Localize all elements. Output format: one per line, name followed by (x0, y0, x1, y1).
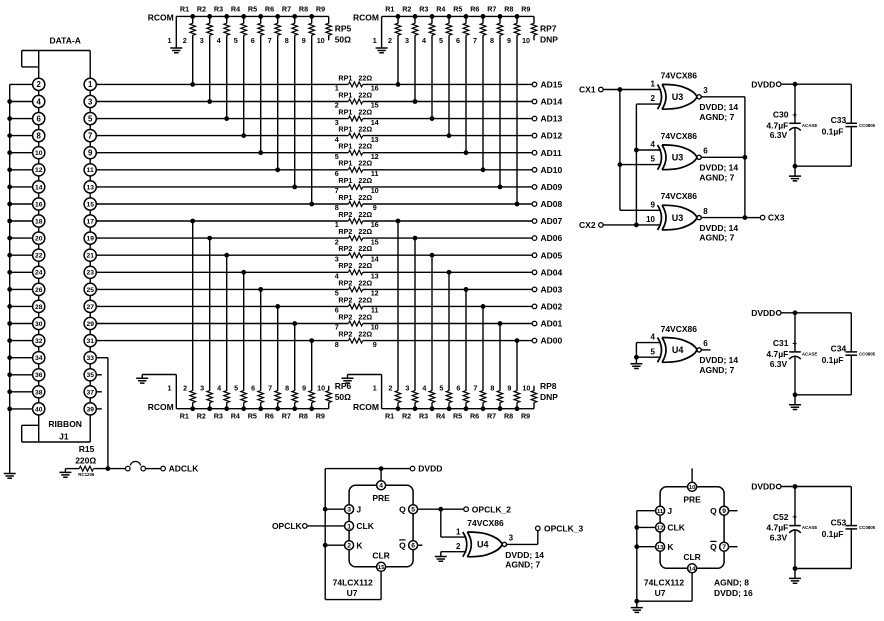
wire J1 pin 4 to ground bus (10, 101, 33, 103)
resistor RP7.R5 (453, 4, 469, 45)
wire RP6.R5 up to data line (260, 289, 262, 390)
node CX2 input terminal (599, 223, 604, 228)
junction RP8.R7 on data line (498, 321, 503, 326)
svg-text:3: 3 (703, 86, 708, 95)
resistor RP1 element 4 (AD12) 22 ohm (335, 125, 379, 144)
svg-text:RP2 22Ω: RP2 22Ω (338, 227, 372, 236)
wire RP7.R3 down to data line (431, 35, 433, 118)
junction RP6 bus at R4 (241, 406, 246, 411)
net AD15 wire left segment (96, 83, 348, 85)
wire RP7.R6 down to data line (482, 35, 484, 170)
svg-text:RP1 22Ω: RP1 22Ω (338, 176, 372, 185)
junction RP8 bus at R3 (430, 406, 435, 411)
svg-text:9: 9 (507, 36, 511, 45)
RP8 RCOM pin 1 wire jog to ground (381, 375, 383, 409)
svg-text:8: 8 (703, 207, 708, 216)
resistor RP1 element 1 (AD15) 22 ohm (335, 73, 379, 92)
wire CX2 riser up to U3a pin 2 (635, 104, 637, 225)
wire J1 pin 40 to ground bus (10, 408, 33, 410)
svg-text:R1: R1 (385, 412, 394, 421)
junction RP6.R2 on data line (207, 236, 212, 241)
wire R15 to jumper (94, 468, 126, 470)
junction RP5.R4 on data line (241, 133, 246, 138)
junction RP7.R5 on data line (464, 150, 469, 155)
svg-text:RP2 22Ω: RP2 22Ω (338, 278, 372, 287)
svg-text:Q: Q (710, 506, 717, 516)
resistor RP5.R3 (214, 4, 230, 45)
svg-text:74VCX86: 74VCX86 (661, 131, 698, 141)
wire stub pin 10 of RP8 (533, 386, 535, 391)
pin 9 Q (710, 506, 728, 516)
svg-text:AGND; 7: AGND; 7 (699, 172, 734, 182)
junction on ground bus at pin 24 row (7, 270, 12, 275)
svg-text:50Ω: 50Ω (335, 34, 351, 44)
wire J1 pin 33 to ADCLK drop (96, 357, 108, 359)
svg-text:AD07: AD07 (541, 216, 563, 226)
resistor RP8.R5 (453, 384, 469, 421)
resistor R15 220 ohm (75, 444, 96, 477)
resistor network RP8 common bus (382, 408, 534, 410)
junction RP7 bus at R3 (430, 14, 435, 19)
wire RP8.R1 up to data line (397, 221, 399, 391)
node AD01 output terminal (532, 321, 537, 326)
junction RP7.R3 on data line (430, 116, 435, 121)
wire U3 output 8 to CX3 bus (701, 217, 745, 219)
node AD10 output terminal (532, 168, 537, 173)
wire J1 pin 34 to ground bus (10, 357, 33, 359)
svg-text:74LCX112: 74LCX112 (333, 578, 373, 588)
connector J1 pin circles right column (odd pins) (84, 78, 96, 415)
svg-text:74VCX86: 74VCX86 (661, 191, 698, 201)
ground symbol capacitor group (794, 395, 796, 405)
node AD04 output terminal (532, 270, 537, 275)
junction on ground bus at pin 32 row (7, 338, 12, 343)
wire U4 pin 5 tie (636, 356, 661, 358)
junction CX3 bus at U3c output (743, 215, 748, 220)
junction OPCLK_2 branch (438, 507, 443, 512)
svg-text:12: 12 (657, 526, 664, 532)
svg-text:7: 7 (268, 384, 272, 393)
junction RP8 bus at R1 (396, 406, 401, 411)
resistor RP1 element 5 (AD11) 22 ohm (335, 142, 379, 161)
resistor RP6.R4 (231, 384, 247, 421)
wire J1 pin 15 to data line (96, 203, 98, 205)
resistor RP7.R1 (385, 4, 401, 45)
junction RP8 bus at R5 (464, 406, 469, 411)
svg-text:PRE: PRE (372, 493, 390, 503)
svg-text:21: 21 (86, 253, 94, 260)
ground symbol at bottom of even-pin bus (4, 474, 16, 479)
svg-text:9: 9 (302, 36, 306, 45)
svg-text:CLK: CLK (356, 521, 374, 531)
svg-text:7: 7 (268, 36, 272, 45)
resistor RP2 element 8 (AD00) 22 ohm (335, 330, 377, 349)
resistor RP8.R1 (385, 384, 401, 421)
wire RP7.R5 down to data line (465, 35, 467, 153)
net AD03 wire left segment (96, 288, 348, 290)
svg-text:23: 23 (86, 270, 94, 277)
junction CX3 bus at U3b output (743, 155, 748, 160)
svg-text:9: 9 (722, 508, 726, 515)
wire RP8.R5 up to data line (465, 289, 467, 390)
svg-text:15: 15 (86, 201, 94, 208)
svg-text:5: 5 (234, 384, 238, 393)
svg-text:3: 3 (405, 384, 409, 393)
pin 14 CLR (683, 552, 700, 573)
pin 13 K (656, 542, 675, 552)
svg-text:7: 7 (722, 544, 726, 551)
junction RP8.R6 on data line (481, 304, 486, 309)
wire to CX3 terminal (745, 217, 761, 219)
wire J1 pin 6 to ground bus (10, 118, 33, 120)
svg-text:19: 19 (86, 236, 94, 243)
svg-text:6.3V: 6.3V (770, 359, 788, 369)
svg-text:AD05: AD05 (541, 250, 563, 260)
junction RP7.R7 on data line (498, 185, 503, 190)
ground bus on even pins of J1 (9, 84, 11, 473)
junction on ground bus at pin 34 row (7, 355, 12, 360)
svg-text:R6: R6 (265, 4, 274, 13)
wire RP8.R8 up to data line (516, 341, 518, 391)
ground symbol capacitor group (794, 569, 796, 579)
wire J1 pin 30 to ground bus (10, 323, 33, 325)
junction on ground bus at pin 16 row (7, 202, 12, 207)
resistor RP7.R9 (521, 4, 537, 45)
junction RP5 bus at R1 (190, 14, 195, 19)
resistor RP6.R2 (197, 384, 213, 421)
svg-text:74LCX112: 74LCX112 (644, 578, 684, 588)
svg-text:10: 10 (317, 384, 325, 393)
svg-text:CLR: CLR (372, 550, 389, 560)
svg-text:PRE: PRE (683, 494, 701, 504)
svg-text:RP8: RP8 (540, 381, 557, 391)
resistor RP5.R4 (231, 4, 247, 45)
resistor RP8.R3 (419, 384, 435, 421)
net AD14 wire right segment (363, 101, 533, 103)
net AD13 wire left segment (96, 118, 348, 120)
net AD00 wire right segment (363, 340, 533, 342)
junction RP6.R3 on data line (224, 253, 229, 258)
wire RP5.R6 down to data line (277, 35, 279, 170)
net AD01 wire right segment (363, 323, 533, 325)
svg-text:8: 8 (37, 131, 42, 140)
junction RP8 bus at R4 (447, 406, 452, 411)
svg-text:1: 1 (651, 80, 656, 89)
node AD09 output terminal (532, 185, 537, 190)
net AD03 wire right segment (363, 288, 533, 290)
wire RP5.R3 down to data line (226, 35, 228, 118)
svg-text:RP7: RP7 (540, 23, 557, 33)
svg-text:ACASE: ACASE (802, 352, 817, 357)
svg-text:R5: R5 (453, 4, 462, 13)
wire RP5.R5 down to data line (260, 35, 262, 153)
net AD11 wire right segment (363, 152, 533, 154)
wire J1 pin 1 to data line (96, 83, 98, 85)
svg-text:K: K (667, 542, 674, 552)
wire U4 output 3 to OPCLK_3 (506, 543, 538, 545)
svg-text:RP1 22Ω: RP1 22Ω (338, 142, 372, 151)
wire RP6.R8 up to data line (311, 341, 313, 391)
connector J1 bottom bracket outline (22, 441, 91, 443)
svg-text:RC1206: RC1206 (78, 472, 95, 477)
node OPCLK input terminal (303, 524, 308, 529)
wire J1 pin 23 to data line (96, 271, 98, 273)
wire J1 pin 38 to ground bus (10, 391, 33, 393)
ground symbol capacitor group (794, 166, 796, 176)
svg-text:3: 3 (405, 36, 409, 45)
wire J1 pin 9 to data line (96, 152, 98, 154)
svg-text:5: 5 (439, 384, 443, 393)
junction riser at K row (323, 543, 328, 548)
wire stub pin 10 of RP6 (328, 386, 330, 391)
net AD02 wire right segment (363, 305, 533, 307)
wire J1 pin 14 to ground bus (10, 186, 33, 188)
svg-text:AD13: AD13 (541, 114, 563, 124)
resistor RP7.R8 (504, 4, 520, 45)
resistor RP1 element 3 (AD13) 22 ohm (335, 108, 379, 127)
svg-text:AD01: AD01 (541, 319, 563, 329)
junction RP8.R5 on data line (464, 287, 469, 292)
junction RP6 bus at R8 (309, 406, 314, 411)
junction RP7 bus at R7 (498, 14, 503, 19)
pin 12 CLK (656, 523, 686, 533)
node DVDD terminal (C52/C53 group) (776, 484, 781, 489)
junction RP5 bus at R2 (207, 14, 212, 19)
svg-text:10: 10 (522, 384, 530, 393)
wire RP7.R1 down to data line (397, 35, 399, 84)
svg-text:CLR: CLR (683, 552, 700, 562)
resistor RP6.R9 (316, 384, 332, 421)
junction RP6.R6 on data line (275, 304, 280, 309)
svg-text:2: 2 (37, 80, 42, 89)
capacitor C31 4.7uF 6.3V (polarized) (766, 313, 817, 395)
ground riser left of U7b (636, 511, 638, 602)
wire DVDD top rail of U7a (325, 468, 410, 470)
node AD03 output terminal (532, 287, 537, 292)
svg-text:R5: R5 (453, 412, 462, 421)
svg-text:R1: R1 (180, 412, 189, 421)
svg-text:DVDD; 14: DVDD; 14 (699, 223, 738, 233)
net AD06 wire left segment (96, 237, 348, 239)
resistor RP1 element 6 (AD10) 22 ohm (335, 159, 379, 178)
junction RP8.R4 on data line (447, 270, 452, 275)
svg-text:1: 1 (168, 36, 172, 45)
svg-text:R6: R6 (265, 412, 274, 421)
svg-text:RP1 22Ω: RP1 22Ω (338, 108, 372, 117)
svg-text:Q: Q (399, 504, 406, 514)
wire RP5.R4 down to data line (243, 35, 245, 135)
svg-text:R4: R4 (231, 412, 240, 421)
net AD10 wire right segment (363, 169, 533, 171)
svg-text:RP1 22Ω: RP1 22Ω (338, 159, 372, 168)
svg-text:0.1µF: 0.1µF (822, 529, 844, 539)
junction on ground bus at pin 8 row (7, 133, 12, 138)
pin 6 Qbar (399, 540, 417, 550)
resistor RP5.R1 (180, 4, 196, 45)
wire RP7.R4 down to data line (448, 35, 450, 135)
junction RP5 bus at R6 (275, 14, 280, 19)
wire U3 output 6 to CX3 bus (701, 156, 745, 158)
resistor RP6.R6 (265, 384, 281, 421)
XOR gate U4 (spare, inputs grounded) 74VCX86 (651, 324, 739, 375)
svg-text:26: 26 (35, 287, 43, 294)
svg-text:27: 27 (86, 304, 94, 311)
svg-text:4: 4 (379, 483, 383, 490)
wire J1 pin 19 to data line (96, 237, 98, 239)
wire RP8.R6 up to data line (482, 306, 484, 390)
svg-text:DVDD; 16: DVDD; 16 (714, 588, 753, 598)
svg-text:Q: Q (399, 540, 406, 550)
svg-text:R9: R9 (521, 412, 530, 421)
svg-text:14: 14 (35, 184, 43, 191)
flip-flop body outline (349, 485, 413, 567)
svg-text:1: 1 (373, 36, 377, 45)
stub Q pin 9 of U7b (729, 510, 738, 512)
junction on ground bus at pin 30 row (7, 321, 12, 326)
svg-text:10: 10 (646, 215, 655, 224)
svg-text:2: 2 (388, 36, 392, 45)
svg-text:3: 3 (200, 384, 204, 393)
svg-text:ACASE: ACASE (802, 123, 817, 128)
wire J1 pin 36 to ground bus (10, 374, 33, 376)
wire RP6.R2 up to data line (209, 238, 211, 391)
svg-text:R3: R3 (214, 4, 223, 13)
ground symbol left of R15 (65, 468, 79, 470)
ground symbol RP5 RCOM (170, 48, 182, 53)
resistor RP7.R4 (436, 4, 452, 45)
node AD15 output terminal (532, 82, 537, 87)
svg-text:RP1 22Ω: RP1 22Ω (338, 73, 372, 82)
svg-text:RP1 22Ω: RP1 22Ω (338, 90, 372, 99)
svg-text:6: 6 (456, 36, 460, 45)
wire J1 pin 28 to ground bus (10, 305, 33, 307)
svg-text:R4: R4 (231, 4, 240, 13)
junction RP5.R1 on data line (190, 82, 195, 87)
pin 4 PRE (372, 481, 390, 503)
junction RP8.R2 on data line (413, 236, 418, 241)
net AD10 wire left segment (96, 169, 348, 171)
svg-text:+: + (792, 513, 797, 522)
svg-text:8: 8 (490, 36, 494, 45)
svg-text:8: 8 (490, 384, 494, 393)
junction on ground bus at pin 40 row (7, 407, 12, 412)
junction on ground bus at pin 38 row (7, 389, 12, 394)
junction RP6.R5 on data line (258, 287, 263, 292)
svg-text:4: 4 (651, 333, 656, 342)
svg-text:3: 3 (88, 97, 93, 106)
junction on ground bus at pin 12 row (7, 167, 12, 172)
svg-text:R3: R3 (419, 412, 428, 421)
svg-text:DVDD: DVDD (751, 308, 775, 318)
pin 3 J (345, 504, 362, 514)
capacitor C34 0.1uF (822, 313, 876, 395)
wire DVDD terminal to rail (781, 83, 852, 85)
svg-text:CX2: CX2 (579, 220, 596, 230)
svg-text:25: 25 (86, 287, 94, 294)
wire jumper to ADCLK terminal (145, 468, 161, 470)
svg-text:CLK: CLK (667, 523, 685, 533)
resistor RP8.R8 (504, 384, 520, 421)
svg-text:AD08: AD08 (541, 199, 563, 209)
junction RP8.R8 on data line (515, 338, 520, 343)
svg-text:6.3V: 6.3V (770, 130, 788, 140)
wire J1 pin 24 to ground bus (10, 271, 33, 273)
junction RP6 bus at R2 (207, 406, 212, 411)
wire RP7.R2 down to data line (414, 35, 416, 101)
wire riser to U3b pin 5 (620, 164, 661, 166)
svg-text:CX1: CX1 (579, 85, 596, 95)
junction RP8 bus at R7 (498, 406, 503, 411)
junction RP6.R7 on data line (292, 321, 297, 326)
svg-text:U3: U3 (672, 213, 684, 223)
resistor RP5.R7 (282, 4, 298, 45)
junction on ground bus at pin 28 row (7, 304, 12, 309)
svg-text:10: 10 (689, 485, 695, 491)
net AD06 wire right segment (363, 237, 533, 239)
junction RP6 bus at R6 (275, 406, 280, 411)
svg-text:16: 16 (35, 201, 43, 208)
svg-text:AD15: AD15 (541, 80, 563, 90)
svg-text:RP5: RP5 (335, 23, 352, 33)
svg-text:+: + (792, 339, 797, 348)
svg-text:2: 2 (183, 36, 187, 45)
ground symbol U4b pin 2 (435, 557, 447, 562)
connector J1 left pin column spine (38, 51, 40, 443)
wire J1 pin 11 to data line (96, 169, 98, 171)
pin 7 Qbar (710, 541, 728, 551)
wire J1 pin 7 to data line (96, 135, 98, 137)
junction RP7 bus at R2 (413, 14, 418, 19)
node AD14 output terminal (532, 99, 537, 104)
junction on ground bus at pin 18 row (7, 219, 12, 224)
junction RP6 bus at R3 (224, 406, 229, 411)
svg-text:AGND; 7: AGND; 7 (505, 559, 540, 569)
svg-text:AD02: AD02 (541, 302, 563, 312)
svg-text:CC0805: CC0805 (859, 123, 876, 128)
svg-text:R2: R2 (402, 4, 411, 13)
svg-text:2: 2 (456, 542, 461, 551)
junction RP6.R4 on data line (241, 270, 246, 275)
wire CX1 riser down to U3c pin 9 (619, 90, 621, 211)
junction RP6 bus at R7 (292, 406, 297, 411)
svg-text:1: 1 (373, 384, 377, 393)
svg-text:11: 11 (657, 509, 664, 515)
node CX1 input terminal (599, 87, 604, 92)
wire riser bottom to CLR (325, 599, 381, 601)
resistor RP2 element 6 (AD02) 22 ohm (335, 295, 379, 314)
wire J1 pin 31 to data line (96, 340, 98, 342)
junction RP5 bus at R5 (258, 14, 263, 19)
resistor network RP6 common bus (176, 408, 328, 410)
svg-text:AD14: AD14 (541, 97, 563, 107)
resistor RP7.R3 (419, 4, 435, 45)
resistor RP8.R9 (521, 384, 537, 421)
svg-text:OPCLK_2: OPCLK_2 (472, 504, 511, 514)
svg-text:29: 29 (86, 321, 94, 328)
stub Qbar pin 6 of U7a (418, 544, 423, 546)
wire DVDD terminal to rail (781, 312, 852, 314)
svg-text:R6: R6 (470, 4, 479, 13)
wire CLR pin 14 to ground riser (691, 573, 693, 601)
svg-text:RP2 22Ω: RP2 22Ω (338, 330, 372, 339)
wire DVDD riser down left side of U7a (324, 469, 326, 600)
net AD08 wire right segment (363, 203, 533, 205)
svg-text:R5: R5 (248, 4, 257, 13)
resistor RP2 element 2 (AD06) 22 ohm (335, 227, 379, 246)
capacitor C53 0.1uF (822, 487, 876, 569)
svg-text:R4: R4 (436, 412, 445, 421)
svg-text:R7: R7 (487, 4, 496, 13)
